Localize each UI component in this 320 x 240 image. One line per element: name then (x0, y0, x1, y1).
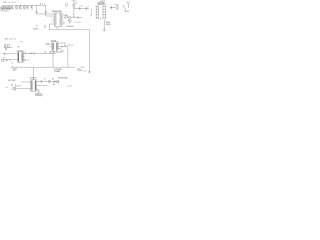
svg-text:22K: 22K (23, 9, 26, 11)
bracket mark (99, 18, 102, 20)
label (28, 53, 30, 55)
net label (66, 25, 74, 28)
label (17, 46, 20, 48)
value label (85, 6, 89, 8)
svg-text:VOLTS DC: VOLTS DC (1, 11, 10, 13)
wire long net (49, 29, 89, 31)
pin 6 (52, 23, 54, 25)
wire (4, 46, 13, 48)
svg-text:250VDC: 250VDC (33, 28, 40, 30)
svg-text:B: B (9, 2, 10, 4)
label (16, 86, 18, 88)
svg-text:117V: 117V (52, 78, 54, 80)
svg-text:40+: 40+ (56, 52, 59, 54)
svg-text:C12: C12 (20, 42, 23, 44)
wire (16, 87, 31, 89)
transformer T2 label (17, 50, 24, 52)
label (67, 85, 72, 87)
svg-text:47K: 47K (19, 9, 22, 11)
transformer T1 (52, 42, 58, 51)
wire (58, 42, 60, 44)
label (44, 78, 46, 80)
wire (37, 13, 53, 15)
capacitor C2 (30, 5, 33, 10)
diode D2 (13, 88, 15, 90)
wire (62, 46, 68, 48)
label (56, 52, 59, 54)
capacitor C9 (77, 16, 80, 18)
ground (5, 47, 7, 50)
value label (115, 5, 119, 7)
ground (69, 19, 71, 23)
resistor R4 (73, 4, 75, 7)
svg-text:10K: 10K (15, 9, 18, 11)
pin 4 (52, 19, 54, 21)
svg-text:2K: 2K (75, 2, 77, 4)
wire drop to T3 (32, 67, 34, 79)
svg-text:POWER T3: POWER T3 (30, 77, 37, 79)
wire (23, 52, 24, 54)
wire (66, 15, 68, 17)
pin 1 (52, 13, 54, 15)
label rows (106, 22, 111, 26)
svg-text:25V: 25V (78, 22, 81, 24)
svg-text:TRANSISTOR A1: TRANSISTOR A1 (52, 10, 62, 13)
net label B2 (33, 26, 40, 31)
capacitor C13 (47, 43, 50, 45)
label under bus (12, 68, 16, 72)
label (53, 83, 54, 86)
label (6, 87, 8, 89)
svg-text:.001: .001 (79, 5, 83, 7)
ground (38, 92, 40, 93)
ground (103, 30, 106, 31)
transformer T3 (31, 80, 37, 92)
capacitor C25 (11, 83, 13, 86)
svg-text:RECTIFIER: RECTIFIER (8, 80, 15, 82)
svg-text:+5: +5 (9, 60, 11, 62)
capacitor C3 (35, 12, 37, 15)
capacitor C1 (26, 5, 29, 10)
svg-text:600: 600 (30, 53, 33, 55)
wire (73, 7, 75, 16)
capacitor C4 (45, 12, 47, 17)
label (44, 25, 46, 29)
wire (103, 19, 105, 30)
resistor R5 (4, 45, 6, 47)
label (61, 42, 66, 44)
connector ladder P1 (96, 6, 99, 19)
label under bus mid (54, 69, 62, 73)
svg-text:25: 25 (60, 49, 62, 51)
capacitor C14 (60, 46, 63, 48)
svg-text:U1: U1 (56, 27, 59, 29)
pin 12 (62, 23, 64, 25)
pin numbers (56, 14, 60, 26)
wire drop (45, 5, 47, 11)
capacitor C6 (76, 7, 80, 9)
wire (74, 8, 89, 10)
svg-text:SWITCH: SWITCH (106, 24, 111, 26)
pin 11 (62, 21, 64, 23)
wire pin (36, 88, 37, 90)
label (9, 60, 11, 62)
label (63, 22, 65, 24)
svg-text:41: 41 (12, 2, 14, 4)
bus end label (77, 68, 81, 71)
wire (23, 59, 24, 61)
resistor R8 (57, 81, 59, 83)
node A (73, 7, 76, 10)
label (124, 11, 129, 13)
pin 7 (62, 13, 64, 15)
value label (74, 22, 81, 24)
label row (58, 77, 68, 80)
svg-text:w-gnd: w-gnd (67, 85, 72, 87)
svg-text:=10: =10 (74, 22, 77, 24)
wire (53, 81, 55, 85)
wire (75, 16, 78, 18)
value label (79, 5, 83, 7)
net label AVC (40, 2, 46, 5)
capacitor C15 (64, 44, 67, 46)
capacitor C21 (24, 59, 27, 61)
label (19, 85, 21, 87)
ground bus wire (11, 66, 75, 68)
svg-text:47K: 47K (17, 46, 20, 48)
resistor R7 (2, 59, 4, 61)
wire drop to bus (67, 47, 69, 68)
label (54, 81, 57, 83)
label (20, 42, 23, 44)
op-amp U1 label (52, 10, 62, 13)
power rail B+ (72, 1, 77, 4)
antenna (127, 1, 130, 8)
svg-text:AVC: AVC (40, 2, 46, 5)
pin 9 (62, 17, 64, 19)
capacitor C7 (85, 7, 88, 9)
svg-text:40: 40 (19, 85, 21, 87)
value label (82, 70, 86, 72)
connector note text (97, 1, 106, 6)
label (52, 78, 54, 80)
wire (2, 53, 4, 55)
label (81, 67, 85, 69)
label under microphone (68, 20, 72, 22)
svg-text:PILOT: PILOT (115, 5, 119, 7)
capacitor C17 (53, 51, 55, 53)
svg-text:P-6134 EQUIV: P-6134 EQUIV (35, 95, 43, 97)
value label (75, 2, 77, 4)
switch S1 (123, 5, 125, 10)
wire (64, 14, 65, 16)
pin 3 (52, 17, 54, 19)
wire from pin 6 (49, 24, 52, 30)
capacitor C16 (50, 51, 52, 53)
jack J1 (90, 9, 92, 16)
capacitor C23 (40, 80, 43, 82)
pin 8 (62, 15, 64, 17)
wire drop (36, 5, 38, 11)
transformer T3 label (30, 77, 37, 79)
capacitor C24 (38, 89, 41, 92)
svg-text:390: 390 (69, 45, 72, 47)
capacitor C5 (64, 14, 67, 16)
label (44, 52, 46, 54)
capacitor C11 (79, 70, 82, 71)
wire (23, 56, 25, 58)
svg-text:60Hz: 60Hz (54, 81, 57, 83)
wire (50, 52, 57, 54)
bottom text block (35, 92, 43, 97)
svg-text:LUG: LUG (77, 70, 80, 72)
capacitor C20 (33, 52, 36, 54)
wire (58, 46, 61, 48)
label (11, 62, 13, 64)
svg-text:GND: GND (12, 70, 15, 72)
wire (88, 30, 90, 72)
svg-text:.02: .02 (27, 60, 29, 62)
transformer T1 label (51, 40, 57, 42)
wire (26, 52, 33, 54)
wire (14, 84, 16, 91)
connector ladder P2 (103, 6, 107, 19)
label (60, 51, 64, 53)
svg-text:DRIVER: DRIVER (51, 40, 57, 42)
wire top rail (2, 4, 46, 6)
resistor R6 (7, 45, 9, 48)
resistor R2 (19, 5, 22, 10)
svg-text:6V: 6V (44, 27, 46, 29)
label under U1 (56, 27, 59, 29)
lamp D1 (116, 5, 118, 10)
svg-text:B- RETURN: B- RETURN (54, 69, 62, 71)
svg-text:450V: 450V (60, 51, 64, 53)
resistor R3 (23, 5, 26, 10)
net label (8, 80, 15, 82)
pin 2 (52, 15, 54, 17)
label (3, 58, 5, 60)
wire (112, 7, 116, 9)
note text top-left (3, 2, 17, 4)
svg-text:VOLUME CONTROL: VOLUME CONTROL (97, 4, 106, 6)
wire (79, 16, 82, 18)
wire (36, 80, 59, 82)
svg-text:C8: C8 (63, 22, 65, 24)
svg-text:SPK: SPK (81, 67, 85, 69)
svg-text:ON-OFF: ON-OFF (124, 11, 129, 13)
node B (67, 44, 68, 45)
pin 10 (62, 19, 64, 21)
svg-text:OUT 6V: OUT 6V (61, 42, 66, 44)
wire (46, 15, 53, 17)
capacitor C8 (73, 16, 75, 19)
label Rh (65, 4, 68, 8)
wire (45, 43, 48, 45)
capacitor C22 (6, 59, 8, 62)
pin 5 (52, 21, 54, 23)
op-amp U1 (55, 13, 62, 27)
label (30, 53, 33, 55)
wire (36, 84, 47, 86)
svg-text:C: C (11, 89, 12, 91)
resistor R1 (15, 5, 18, 10)
wire (58, 48, 60, 50)
wire (50, 46, 52, 48)
left mid net label (5, 38, 16, 41)
wire drop to bus (52, 53, 54, 67)
wire (35, 52, 50, 54)
svg-text:.05: .05 (11, 62, 13, 64)
wire (5, 53, 17, 55)
label (27, 60, 29, 62)
wire tick (12, 66, 14, 68)
wire (2, 58, 17, 60)
capacitor C10 (109, 6, 112, 10)
note block (1, 5, 15, 12)
svg-text:.02: .02 (31, 9, 34, 11)
label (69, 45, 72, 47)
svg-text:G=: G= (6, 87, 8, 89)
transformer T2 (17, 52, 23, 63)
label (46, 79, 47, 81)
wire (21, 81, 31, 83)
microphone M1 (65, 16, 74, 19)
label (59, 49, 62, 54)
svg-text:.05: .05 (27, 9, 30, 11)
transistor Q1 (49, 80, 51, 83)
ground (88, 72, 90, 73)
svg-text:3.2Ω: 3.2Ω (82, 70, 86, 72)
label (11, 89, 12, 91)
capacitor C19 (24, 52, 27, 54)
capacitor C18 (3, 53, 6, 55)
wire (49, 43, 52, 45)
